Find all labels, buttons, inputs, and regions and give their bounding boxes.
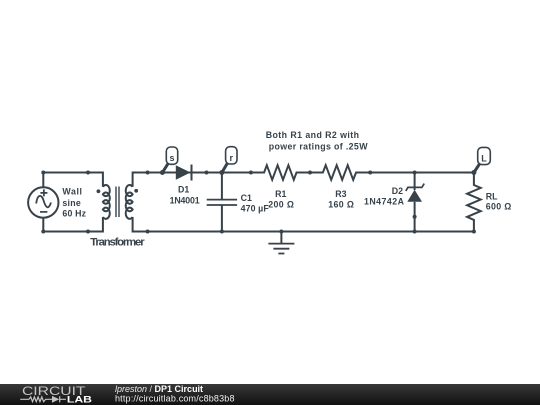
svg-text:r: r [230, 153, 234, 163]
svg-text:1N4742A: 1N4742A [364, 197, 405, 207]
svg-text:s: s [169, 153, 174, 163]
svg-text:Transformer: Transformer [90, 237, 145, 249]
svg-text:http://circuitlab.com/c8b83b8: http://circuitlab.com/c8b83b8 [115, 394, 235, 404]
svg-text:Both R1 and R2 with: Both R1 and R2 with [266, 130, 359, 140]
svg-text:R1: R1 [275, 189, 286, 199]
svg-text:C1: C1 [241, 193, 252, 203]
svg-text:power ratings of .25W: power ratings of .25W [269, 142, 368, 152]
svg-text:LAB: LAB [67, 394, 92, 405]
svg-text:R3: R3 [335, 189, 346, 199]
svg-text:sine: sine [62, 198, 80, 208]
svg-text:D2: D2 [392, 186, 403, 196]
svg-text:160 Ω: 160 Ω [328, 199, 354, 209]
svg-text:RL: RL [486, 191, 498, 201]
svg-text:470 µF: 470 µF [241, 204, 270, 214]
svg-text:D1: D1 [178, 185, 189, 195]
svg-text:200 Ω: 200 Ω [268, 199, 294, 209]
svg-text:Wall: Wall [62, 186, 82, 196]
svg-text:600 Ω: 600 Ω [486, 201, 512, 211]
svg-text:L: L [481, 154, 487, 164]
svg-text:60 Hz: 60 Hz [62, 209, 86, 219]
svg-text:1N4001: 1N4001 [170, 195, 200, 205]
